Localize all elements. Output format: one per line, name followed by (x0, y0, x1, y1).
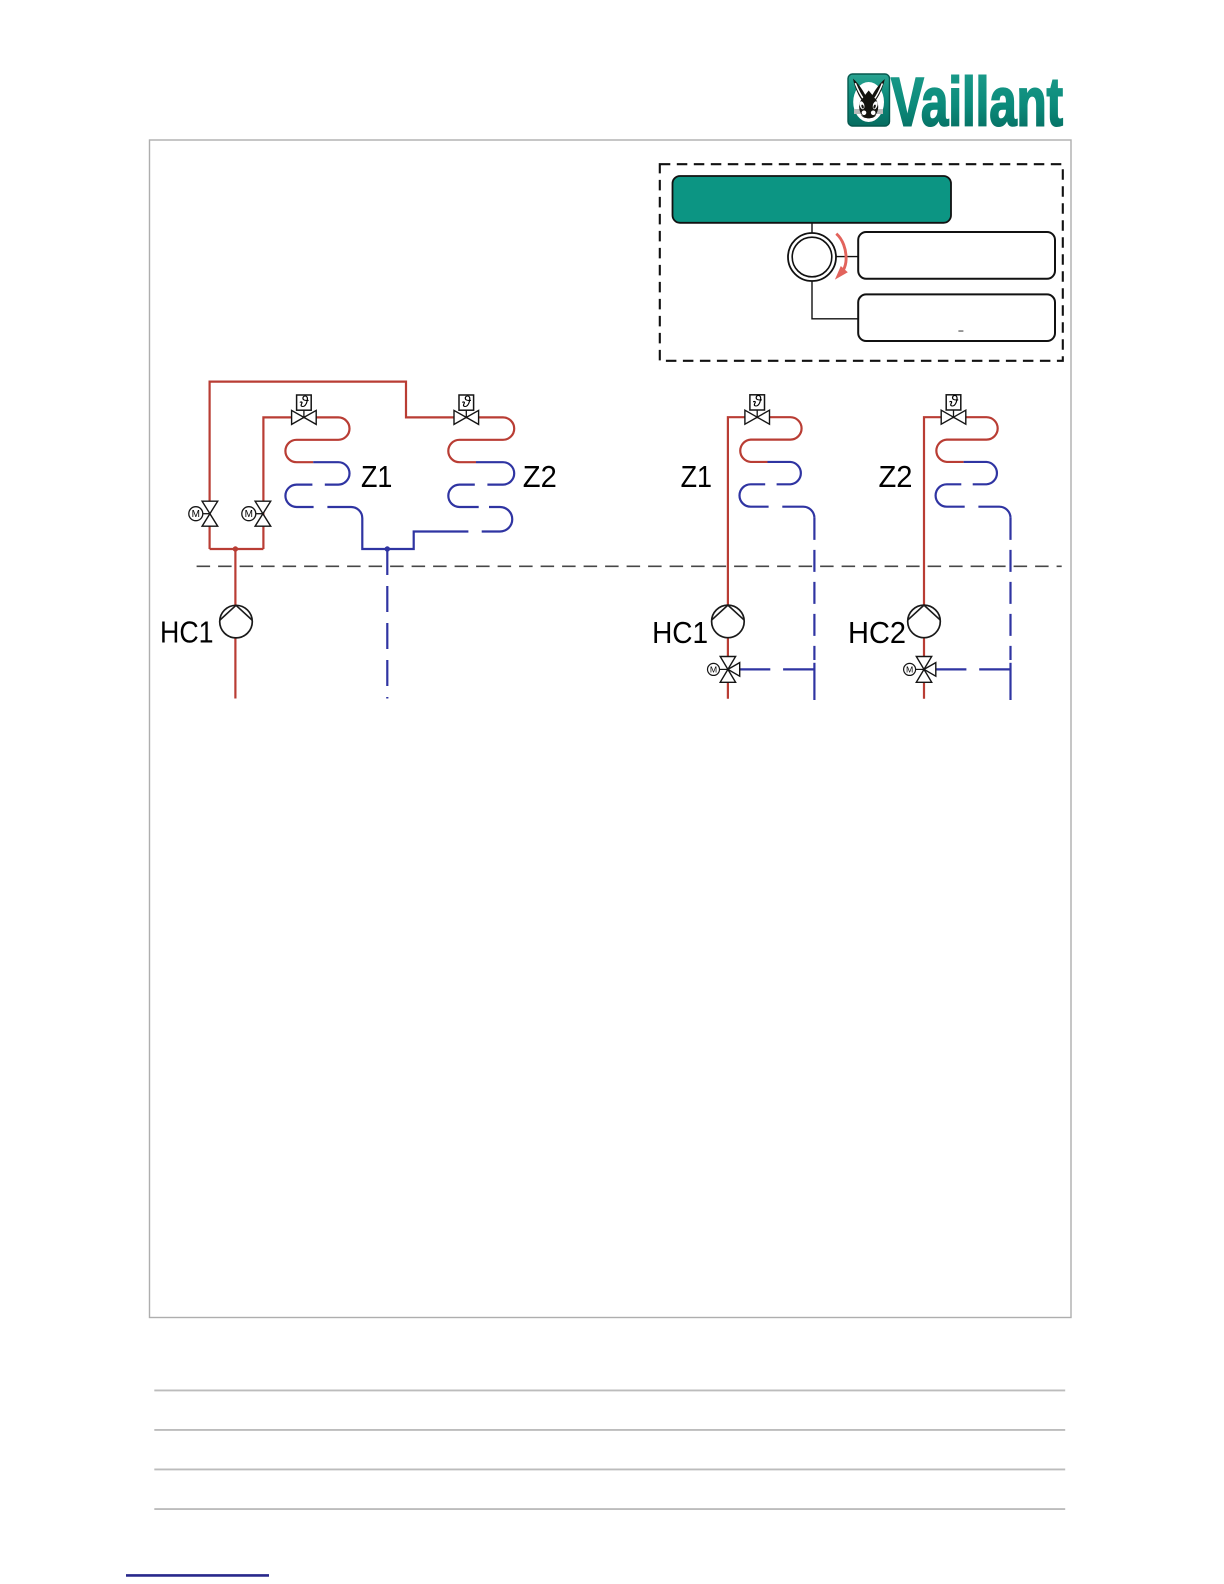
svg-text:HC1: HC1 (652, 616, 708, 650)
svg-text:Z1: Z1 (361, 460, 392, 494)
svg-text:HC2: HC2 (848, 616, 906, 650)
svg-text:Z2: Z2 (523, 460, 557, 494)
svg-text:Vaillant: Vaillant (891, 64, 1063, 141)
svg-text:Z2: Z2 (879, 460, 913, 494)
svg-text:HC1: HC1 (160, 616, 214, 650)
svg-text:Z1: Z1 (681, 460, 712, 494)
